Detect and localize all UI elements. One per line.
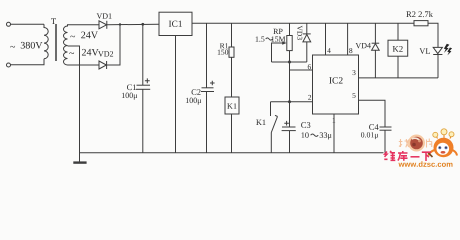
wire K2 to rail [397,23,399,40]
relay coil K2 box [388,40,408,56]
watermark swirl ball [408,135,425,152]
capacitor C3 [282,127,296,131]
wire pin5 to C4 [359,100,386,127]
wire R1 branch upper [231,23,233,47]
wire primary top [11,23,45,25]
wire pin1 to ground rail [333,114,335,153]
wire VD2 output riser [107,25,120,66]
label VD4 [356,43,371,48]
label 10~33u [302,132,309,138]
watermark mascot [428,129,457,158]
wire C4 to ground rail [384,130,386,153]
wire center tap down to ground [68,46,80,162]
label VL [419,48,430,54]
wire secondary bottom to VD2 [68,64,100,66]
junction RP/node [288,61,291,64]
resistor R1 [229,47,234,57]
capacitor C2 [201,88,214,92]
wire K2 leg lower [397,56,399,78]
capacitor C1 [136,85,150,89]
resistor R2 [414,21,428,26]
watermark stamp char zhao (faint) [399,139,409,147]
label K1 coil [227,103,236,108]
label 100u C2 [186,98,201,105]
label ~ of bottom winding [69,52,74,54]
wire C1 branch upper [142,24,144,85]
diode VD2 [99,61,107,69]
wire IC1 ground pin [175,36,177,153]
relay contact K1 blade [271,115,277,132]
LED VL [433,47,442,54]
label 100u C1 [122,93,137,100]
label VD1 [97,13,112,18]
wire VD3 cathode to rail [306,23,308,34]
RP wiper arm [272,43,285,62]
wire secondary top to VD1 [68,25,100,26]
label C1 [127,84,136,90]
relay contact K1 upper leg [270,102,272,116]
junction VD2/rail [119,23,121,25]
label T [51,18,56,24]
label C3 [301,122,310,128]
label C2 [192,89,201,95]
label 1.5~15M [256,36,265,41]
wire VD4 leg lower [374,50,376,78]
wire K1 coil to ground rail [231,114,233,153]
diode VD3 [303,34,311,42]
diode VD4 [372,43,380,50]
char yi [411,156,420,158]
wire C2 branch upper [206,23,208,88]
label IC1 [169,21,182,27]
wire pin8 [347,23,349,55]
wire pin6 [290,69,313,71]
diode VD1 [99,21,107,29]
polarity + of C3 [284,121,289,126]
wire VD4 to rail [374,23,376,43]
wire R1 to K1 coil [231,57,233,97]
label R1 [220,43,228,48]
wire C1 branch lower [142,89,144,153]
junction pin2 node [288,100,291,103]
wire VD3 anode leg [306,42,308,62]
wire LED to pin3 row [437,55,439,78]
wire pin2 row [271,101,313,103]
label K1 contact [256,120,265,125]
label ~380V [10,46,15,48]
ground rail [80,152,384,154]
wire RP bottom to node [289,51,291,62]
terminal bottom-left [7,63,11,67]
relay coil K1 box [225,97,239,114]
transformer T secondary winding [64,25,68,65]
char xia [422,152,431,161]
wire rail right corner down to VL [428,23,438,47]
wire C3 to ground rail [289,131,291,153]
wire pin4 [325,23,327,55]
label pin 6 [308,64,311,69]
label IC2 [329,77,342,83]
label pin 3 [353,70,356,75]
wire node row wiper to VD3 [272,61,307,63]
wire K1 contact lower leg [270,133,272,153]
label pin 5 [353,93,356,98]
polarity + of C2 [210,81,215,86]
wire pin3 row [359,77,439,79]
watermark red text wei-ku-yi-xia (vector glyphs) [384,151,431,161]
wire VD1 output to IC1 [107,23,159,26]
potentiometer RP [287,36,292,51]
transformer core [55,24,57,61]
IC1 box [159,12,192,35]
wire RP branch from rail [289,23,291,35]
label 150 [218,50,228,55]
IC2 box [313,55,359,114]
wire top rail IC1 to R2 [192,22,414,24]
label VD2 [98,51,113,56]
junction C1/rail [141,23,144,26]
label 24V bottom winding [82,49,99,56]
LED light arrows [444,44,450,53]
wire primary bottom [11,59,45,65]
label pin 8 [349,48,352,53]
label ~24V top winding [70,36,75,38]
label R2 2.7k [406,11,433,17]
label pin 1 [333,118,336,123]
capacitor C4 [380,127,392,130]
watermark stamp char pian (faint) [427,139,432,148]
char wei [384,152,387,160]
label pin 4 [327,48,330,53]
wire main node down [289,62,291,102]
watermark url [398,161,452,167]
label VD3 vertical [297,26,302,40]
wire C2 branch lower [206,92,208,153]
label RP [273,29,282,34]
label C4 [369,124,378,130]
polarity + of C1 [145,78,150,83]
RP wiper arrowhead [282,41,286,45]
transformer T primary winding [44,24,48,58]
ground symbol [73,161,86,163]
label K2 [393,46,403,52]
label 0.01u [361,132,378,139]
char ku [398,151,408,161]
label pin 2 [308,95,311,100]
terminal top-left [7,22,11,26]
wire C3 branch [289,102,291,127]
